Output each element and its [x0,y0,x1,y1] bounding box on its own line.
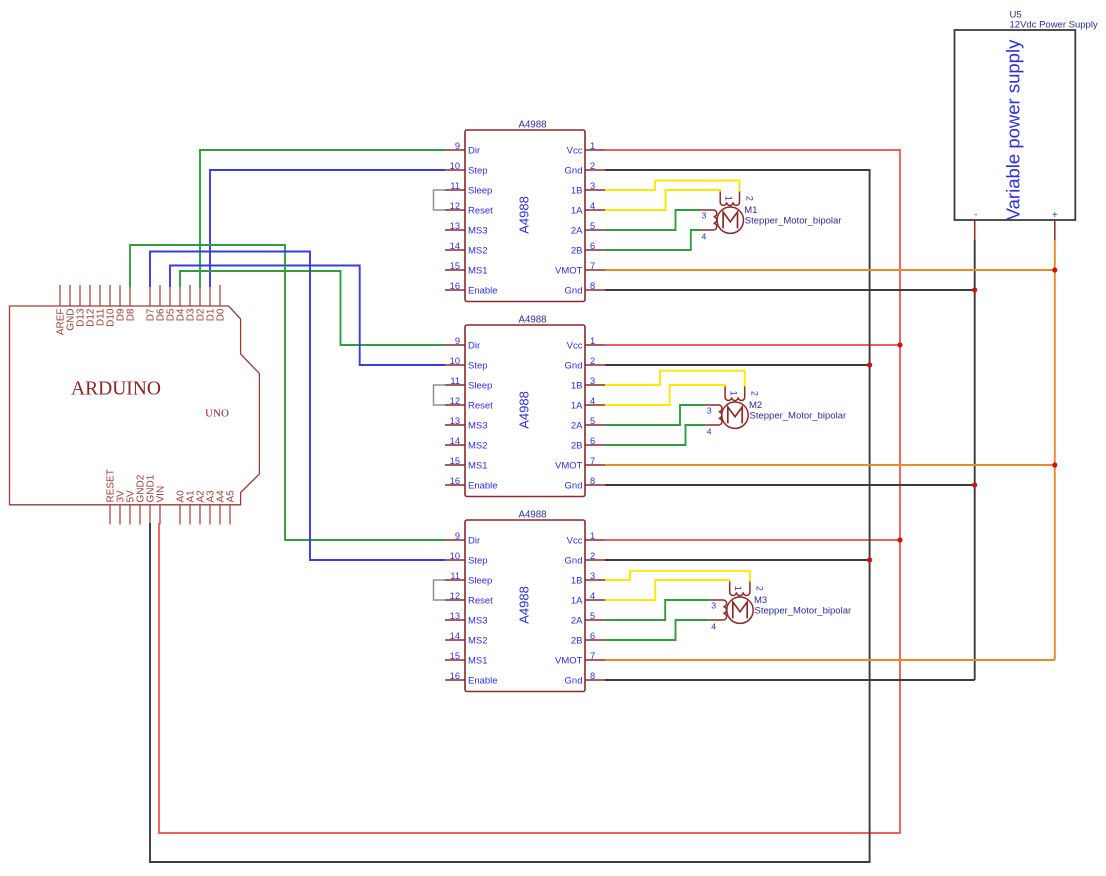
A4988 U2 left pin names Dir..Enable [468,341,498,492]
svg-text:2B: 2B [571,441,583,452]
svg-text:MS3: MS3 [468,616,488,627]
wire black U3 Gnd pin8 branch [605,679,975,681]
A4988 U1 left pin names Dir..Enable [468,146,498,297]
svg-text:15: 15 [450,651,460,661]
svg-text:2: 2 [590,161,595,171]
A4988 U2 right pin names Vcc..Gnd [555,341,583,492]
svg-text:Reset: Reset [468,206,493,217]
wire green U2 2B to M2 pin 4 [605,425,705,445]
svg-text:1A: 1A [571,401,583,412]
svg-text:7: 7 [590,456,595,466]
svg-text:11: 11 [450,571,460,581]
A4988 U1 left pin numbers 9-16 [450,141,460,291]
wire orange U1 VMOT to PSU plus [605,269,1055,271]
svg-text:MS3: MS3 [468,421,488,432]
wire yellow U3 1B to M3 pin 2 [605,571,750,582]
A4988 U3 left pins 9-16 [445,540,465,680]
junction at 974.7,485 [972,482,977,487]
stepper motor M3 circle body [727,597,753,623]
svg-text:MS1: MS1 [468,461,488,472]
svg-text:16: 16 [450,476,460,486]
svg-text:4: 4 [702,232,707,242]
Arduino top pin labels AREF..D0 [55,308,226,335]
svg-text:1: 1 [733,586,743,591]
svg-text:11: 11 [450,376,460,386]
stepper motor M2 phase-B coil (pins 3,4) [705,405,722,425]
wire green U3 2B to M3 pin 4 [605,620,710,640]
A4988 U2 right pin numbers 1-8 [590,336,595,486]
U5 positive pin [1054,220,1056,240]
svg-text:3: 3 [590,376,595,386]
svg-text:12Vdc Power Supply: 12Vdc Power Supply [1010,20,1098,31]
svg-text:3: 3 [590,571,595,581]
stepper motor M1 phase-A coil (pins 1,2) [720,191,739,206]
svg-text:M2: M2 [749,400,762,411]
svg-text:12: 12 [450,591,460,601]
wire yellow U2 1A to M2 pin 1 [605,385,725,405]
A4988 U3 left pin names Dir..Enable [468,536,498,687]
svg-text:UNO: UNO [205,408,229,420]
A4988 U1 left pins 9-16 [445,150,465,290]
wire black U3 Gnd branch [605,559,870,561]
svg-text:8: 8 [590,476,595,486]
svg-text:14: 14 [450,631,460,641]
svg-text:M1: M1 [744,205,757,216]
svg-text:15: 15 [450,456,460,466]
junction at 1054.8,270 [1052,267,1057,272]
svg-text:MS3: MS3 [468,226,488,237]
svg-text:2A: 2A [571,616,583,627]
stepper motor M2 circle body [722,402,748,428]
wire orange U3 VMOT branch [605,659,1055,661]
svg-text:4: 4 [590,396,595,406]
svg-text:Gnd: Gnd [565,166,583,177]
wire gray loop Sleep-Reset U1 [434,190,446,210]
svg-text:9: 9 [455,531,460,541]
svg-text:MS1: MS1 [468,266,488,277]
A4988 U3 right pin numbers 1-8 [590,531,595,681]
svg-text:10: 10 [450,551,460,561]
svg-text:+: + [1052,210,1058,221]
stepper motor M1 letter M [723,212,737,228]
svg-text:MS2: MS2 [468,441,488,452]
svg-text:Vcc: Vcc [567,146,583,157]
wire blue D5 to U2 Step [170,266,445,366]
stepper motor M1 circle body [717,207,743,233]
wire black PSU minus rail [974,240,976,680]
svg-text:12: 12 [450,201,460,211]
A4988 U3 right pin names Vcc..Gnd [555,536,583,687]
svg-text:4: 4 [707,427,712,437]
A4988 U2 right pins 1-8 [585,345,605,485]
svg-text:2A: 2A [571,421,583,432]
Arduino top digital pins [60,285,220,306]
svg-text:Stepper_Motor_bipolar: Stepper_Motor_bipolar [755,605,852,616]
svg-text:Sleep: Sleep [468,576,492,587]
wire yellow U1 1B to M1 pin 2 [605,181,740,192]
svg-text:A4988: A4988 [518,315,546,326]
svg-text:Sleep: Sleep [468,186,492,197]
svg-text:5: 5 [590,221,595,231]
svg-text:6: 6 [590,241,595,251]
wire green U1 2A to M1 pin 3 [605,210,700,230]
svg-text:A4988: A4988 [517,196,532,234]
svg-text:14: 14 [450,241,460,251]
wire black U1 Gnd pin8 to PSU minus [605,289,975,291]
svg-text:Vcc: Vcc [567,536,583,547]
svg-text:Step: Step [468,556,488,567]
A4988 stepper driver U1 body [465,130,585,302]
svg-text:Sleep: Sleep [468,381,492,392]
wire green D2 to U1 Dir [200,150,445,287]
stepper motor M3 letter M [733,602,747,618]
svg-text:1B: 1B [571,186,583,197]
svg-text:10: 10 [450,356,460,366]
svg-text:D8: D8 [125,308,136,321]
svg-text:Dir: Dir [468,146,480,157]
Arduino bottom power/analog pins [110,505,230,525]
svg-text:Reset: Reset [468,401,493,412]
svg-text:Stepper_Motor_bipolar: Stepper_Motor_bipolar [750,410,847,421]
svg-text:D0: D0 [215,308,226,321]
wire black Gnd rail U1 to Arduino GND1 [150,170,870,862]
svg-text:1: 1 [590,336,595,346]
svg-text:3: 3 [707,406,712,416]
A4988 stepper driver U3 body [465,520,585,692]
A4988 U1 right pin numbers 1-8 [590,141,595,291]
svg-text:Step: Step [468,361,488,372]
svg-text:16: 16 [450,671,460,681]
svg-text:A4988: A4988 [517,586,532,624]
wire orange PSU plus rail [1054,240,1056,660]
svg-text:6: 6 [590,436,595,446]
svg-text:2B: 2B [571,246,583,257]
svg-text:A4988: A4988 [518,510,546,521]
svg-text:Reset: Reset [468,596,493,607]
wire blue D1 to U1 Step [210,170,445,287]
svg-text:6: 6 [590,631,595,641]
svg-text:2: 2 [744,196,754,201]
svg-text:3: 3 [711,601,716,611]
svg-text:9: 9 [455,336,460,346]
svg-text:14: 14 [450,436,460,446]
svg-text:5: 5 [590,416,595,426]
svg-text:Gnd: Gnd [565,481,583,492]
svg-text:Enable: Enable [468,286,498,297]
svg-text:Gnd: Gnd [565,286,583,297]
svg-text:ARDUINO: ARDUINO [71,379,161,400]
stepper motor M2 phase-A coil (pins 1,2) [725,386,745,401]
svg-text:1: 1 [590,141,595,151]
wire green U3 2A to M3 pin 3 [605,600,710,620]
svg-text:Step: Step [468,166,488,177]
A4988 U3 left pin numbers 9-16 [450,531,460,681]
svg-text:13: 13 [450,611,460,621]
svg-text:A4988: A4988 [518,120,546,131]
wire red U2 Vcc branch [605,344,900,346]
wire gray loop Sleep-Reset U3 [434,580,446,600]
junction at 869.6,560 [867,557,872,562]
svg-text:4: 4 [590,201,595,211]
junction at 900,540 [897,537,902,542]
svg-text:1: 1 [729,391,739,396]
wire green D4 to U2 Dir [180,271,445,345]
svg-text:Gnd: Gnd [565,361,583,372]
svg-text:12: 12 [450,396,460,406]
U5 negative pin [974,220,976,240]
svg-text:1B: 1B [571,381,583,392]
svg-text:Vcc: Vcc [567,341,583,352]
svg-text:MS2: MS2 [468,636,488,647]
svg-text:13: 13 [450,416,460,426]
wire red U3 Vcc branch [605,539,900,541]
svg-text:Variable power supply: Variable power supply [1003,39,1024,220]
wire blue D7 to U3 Step [150,252,445,561]
wire gray loop Sleep-Reset U2 [434,385,446,405]
junction at 900,345 [897,342,902,347]
svg-text:2: 2 [750,391,760,396]
svg-text:15: 15 [450,261,460,271]
stepper motor M3 phase-B coil (pins 3,4) [710,600,727,620]
svg-text:VMOT: VMOT [555,266,583,277]
wire green D8 to U3 Dir [130,245,445,540]
svg-text:3: 3 [702,211,707,221]
power supply U5 body [955,30,1076,220]
svg-text:3: 3 [590,181,595,191]
wire red Vcc rail U1 to Arduino VIN [159,150,900,833]
svg-text:VMOT: VMOT [555,656,583,667]
svg-text:13: 13 [450,221,460,231]
svg-text:1: 1 [590,531,595,541]
A4988 U3 right pins 1-8 [585,540,605,680]
junction at 1054.8,465 [1052,462,1057,467]
svg-text:M3: M3 [754,595,767,606]
A4988 U1 right pin names Vcc..Gnd [555,146,583,297]
stepper motor M1 phase-B coil (pins 3,4) [700,210,717,230]
svg-text:Gnd: Gnd [565,676,583,687]
svg-text:MS1: MS1 [468,656,488,667]
wire green U2 2A to M2 pin 3 [605,405,705,425]
svg-text:1B: 1B [571,576,583,587]
svg-text:Stepper_Motor_bipolar: Stepper_Motor_bipolar [745,215,842,226]
stepper motor M2 letter M [728,407,742,423]
svg-text:16: 16 [450,281,460,291]
svg-text:8: 8 [590,671,595,681]
Arduino bottom pin labels RESET..A5 [105,469,236,502]
svg-text:-: - [974,210,977,220]
svg-text:1A: 1A [571,596,583,607]
junction at 869.6,365 [867,362,872,367]
A4988 U2 left pin numbers 9-16 [450,336,460,486]
A4988 stepper driver U2 body [465,325,585,497]
A4988 U2 left pins 9-16 [445,345,465,485]
wire orange U2 VMOT branch [605,464,1055,466]
svg-text:2: 2 [590,551,595,561]
wire black U2 Gnd pin8 branch [605,484,975,486]
svg-text:Dir: Dir [468,341,480,352]
svg-text:4: 4 [590,591,595,601]
svg-text:Enable: Enable [468,481,498,492]
svg-text:7: 7 [590,261,595,271]
svg-text:10: 10 [450,161,460,171]
svg-text:A4988: A4988 [517,391,532,429]
wire yellow U3 1A to M3 pin 1 [605,580,730,600]
svg-text:A5: A5 [225,490,236,503]
svg-text:2A: 2A [571,226,583,237]
svg-text:4: 4 [711,622,716,632]
wire yellow U2 1B to M2 pin 2 [605,371,745,387]
wire yellow U1 1A to M1 pin 1 [605,190,720,210]
svg-text:Dir: Dir [468,536,480,547]
svg-text:1: 1 [724,196,734,201]
svg-text:VIN: VIN [155,486,166,503]
svg-text:11: 11 [450,181,460,191]
A4988 U1 right pins 1-8 [585,150,605,290]
svg-text:2B: 2B [571,636,583,647]
svg-text:8: 8 [590,281,595,291]
svg-text:MS2: MS2 [468,246,488,257]
svg-text:5: 5 [590,611,595,621]
wire black U2 Gnd branch [605,364,870,366]
svg-text:2: 2 [590,356,595,366]
svg-text:VMOT: VMOT [555,461,583,472]
junction at 974.7,290 [972,287,977,292]
svg-text:Enable: Enable [468,676,498,687]
svg-text:9: 9 [455,141,460,151]
svg-text:7: 7 [590,651,595,661]
Arduino UNO board outline [10,306,260,505]
svg-text:1A: 1A [571,206,583,217]
wire green U1 2B to M1 pin 4 [605,230,700,250]
stepper motor M3 phase-A coil (pins 1,2) [730,581,750,596]
svg-text:Gnd: Gnd [565,556,583,567]
svg-text:2: 2 [755,586,765,591]
